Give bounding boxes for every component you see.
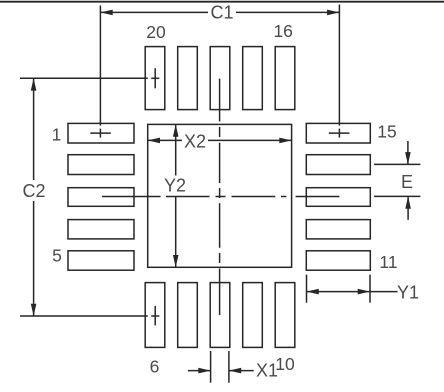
pad 13 bbox=[306, 188, 370, 207]
pad 7 bbox=[178, 283, 198, 348]
pad 19 bbox=[178, 47, 198, 110]
dimension Y1 bbox=[307, 275, 398, 303]
pad 6 bbox=[145, 283, 165, 348]
pad 17 bbox=[243, 47, 263, 110]
svg-text:16: 16 bbox=[273, 21, 292, 41]
pad 4 bbox=[68, 220, 134, 239]
svg-text:6: 6 bbox=[150, 357, 160, 377]
pad 5 bbox=[68, 251, 134, 270]
pad 8 bbox=[210, 283, 230, 348]
svg-text:10: 10 bbox=[275, 354, 295, 374]
pad 1 center mark bbox=[90, 129, 111, 138]
pad 18 bbox=[210, 47, 230, 110]
pad 2 bbox=[68, 155, 134, 175]
dimension X2 bbox=[148, 138, 292, 144]
svg-text:C1: C1 bbox=[210, 3, 233, 23]
svg-text:11: 11 bbox=[379, 252, 397, 272]
svg-text:Y1: Y1 bbox=[397, 283, 419, 303]
dimension E bbox=[374, 141, 420, 220]
svg-text:20: 20 bbox=[146, 22, 166, 42]
dimension X1 bbox=[188, 351, 254, 383]
pad 10 bbox=[275, 283, 295, 348]
svg-text:Y2: Y2 bbox=[164, 176, 186, 196]
svg-text:1: 1 bbox=[52, 125, 62, 145]
vertical centerline bbox=[219, 79, 221, 315]
pad 12 bbox=[306, 220, 370, 239]
pad 3 bbox=[68, 188, 134, 207]
svg-text:15: 15 bbox=[377, 121, 396, 141]
dimension Y2 bbox=[173, 124, 179, 267]
pad 1 bbox=[68, 123, 134, 143]
pad 20 bbox=[145, 47, 165, 110]
svg-text:5: 5 bbox=[52, 246, 62, 266]
svg-text:X2: X2 bbox=[184, 132, 206, 152]
pad 16 bbox=[275, 47, 295, 110]
pad 15 bbox=[306, 123, 370, 143]
dimension C1 bbox=[100, 5, 339, 126]
pad 20 center mark bbox=[151, 68, 159, 88]
pad 11 bbox=[306, 251, 370, 270]
pad 14 bbox=[306, 155, 370, 175]
horizontal centerline bbox=[102, 196, 339, 198]
svg-text:E: E bbox=[401, 172, 413, 192]
pad 6 center mark bbox=[151, 306, 159, 326]
frame top border bbox=[0, 1, 444, 3]
svg-text:C2: C2 bbox=[22, 181, 45, 201]
dimension C2 bbox=[20, 78, 148, 316]
pad 15 center mark bbox=[329, 129, 350, 138]
package outline square bbox=[148, 124, 292, 267]
pad 9 bbox=[243, 283, 263, 348]
